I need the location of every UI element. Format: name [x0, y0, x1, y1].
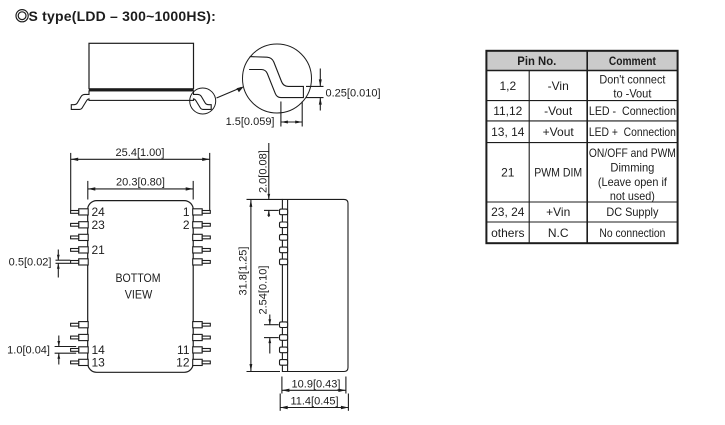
- svg-text:not used): not used): [610, 189, 655, 203]
- right pin 11: [193, 347, 211, 353]
- svg-text:25.4[1.00]: 25.4[1.00]: [116, 147, 165, 159]
- side pin row 20: [280, 259, 288, 265]
- svg-text:VIEW: VIEW: [125, 287, 153, 301]
- left pin 15: [71, 334, 89, 340]
- svg-text:LED - Connection: LED - Connection: [589, 104, 676, 118]
- side pin row 22: [280, 235, 288, 241]
- svg-text:11,12: 11,12: [493, 104, 522, 118]
- left gull-wing lead: [71, 94, 89, 109]
- right pin 9: [193, 322, 211, 328]
- svg-text:LED + Connection: LED + Connection: [589, 125, 676, 139]
- svg-text:BOTTOM: BOTTOM: [116, 271, 161, 285]
- right pin 1: [193, 209, 211, 215]
- side pin row 14: [280, 347, 288, 353]
- side view (right) body: [282, 199, 348, 371]
- svg-text:0.5[0.02]: 0.5[0.02]: [9, 256, 52, 268]
- svg-text:1.0[0.04]: 1.0[0.04]: [7, 344, 50, 356]
- dimension 0.25[0.010]: [306, 69, 381, 111]
- left pin 14: [71, 347, 89, 353]
- dimension 31.8[1.25]: [238, 199, 283, 371]
- pin labels left: [92, 205, 106, 370]
- table row 1,2 -Vin: [499, 72, 666, 100]
- table header background: [486, 51, 677, 71]
- side view base strip: [89, 91, 194, 101]
- side pin row 15: [280, 335, 288, 341]
- svg-text:ON/OFF and PWM: ON/OFF and PWM: [589, 146, 676, 160]
- table column line 2: [586, 51, 588, 243]
- svg-text:Comment: Comment: [609, 54, 656, 68]
- svg-text:No connection: No connection: [599, 226, 665, 240]
- svg-text:10.9[0.43]: 10.9[0.43]: [292, 379, 341, 391]
- svg-text:Dimming: Dimming: [610, 161, 654, 175]
- pin table: [486, 51, 677, 243]
- svg-text:24: 24: [92, 205, 106, 219]
- svg-text:+Vout: +Vout: [543, 125, 575, 139]
- side pin row 13: [280, 360, 288, 366]
- table outer border: [486, 51, 677, 243]
- svg-text:11.4[0.45]: 11.4[0.45]: [290, 396, 338, 408]
- svg-text:-Vout: -Vout: [544, 104, 573, 118]
- dimension 1.0[0.04]: [7, 336, 76, 365]
- left pin 20: [71, 259, 89, 265]
- svg-text:12: 12: [176, 356, 190, 370]
- table row 13,14 +Vout: [491, 125, 676, 139]
- dimension 20.3[0.80]: [88, 177, 193, 200]
- dimension 1.5[0.059]: [226, 102, 303, 129]
- dimension 25.4[1.00]: [71, 147, 210, 210]
- svg-text:31.8[1.25]: 31.8[1.25]: [238, 247, 250, 296]
- dimension 11.4[0.45]: [280, 394, 348, 411]
- svg-text:2.54[0.10]: 2.54[0.10]: [257, 266, 269, 315]
- svg-text:N.C: N.C: [548, 226, 569, 240]
- svg-text:2.0[0.08]: 2.0[0.08]: [257, 150, 269, 193]
- left pin 21: [71, 247, 89, 253]
- svg-text:13: 13: [92, 356, 106, 370]
- detail callout small circle: [190, 88, 216, 114]
- svg-text:Don't connect: Don't connect: [599, 72, 666, 86]
- svg-text:1: 1: [183, 205, 190, 219]
- side pin row 16: [280, 322, 288, 328]
- table row others N.C: [491, 226, 665, 240]
- pin labels right: [176, 205, 190, 370]
- svg-text:(Leave open if: (Leave open if: [598, 175, 668, 189]
- svg-text:PWM DIM: PWM DIM: [534, 166, 582, 180]
- svg-text:others: others: [491, 226, 524, 240]
- side pin row 23: [280, 222, 288, 228]
- svg-text:to -Vout: to -Vout: [613, 86, 652, 100]
- dimension 2.54[0.10]: [257, 266, 278, 354]
- right pin 4: [193, 247, 211, 253]
- svg-text:1,2: 1,2: [499, 79, 516, 93]
- right pin 10: [193, 334, 211, 340]
- left pin 13: [71, 359, 89, 365]
- dimension 10.9[0.43]: [282, 377, 346, 394]
- dimension 0.5[0.02]: [9, 250, 71, 278]
- side view left face inner line: [287, 199, 289, 371]
- table header text: [517, 54, 656, 68]
- table row 21 PWM DIM: [501, 146, 676, 203]
- table column line 1: [528, 71, 530, 244]
- svg-text:+Vin: +Vin: [546, 205, 570, 219]
- magnified gull-wing lead: [249, 57, 303, 98]
- svg-text:20.3[0.80]: 20.3[0.80]: [116, 177, 165, 189]
- svg-text:23: 23: [92, 218, 106, 232]
- right pin 5: [193, 259, 211, 265]
- right pin 3: [193, 234, 211, 240]
- dimension 2.0[0.08]: [257, 143, 278, 217]
- side pin row 21: [280, 247, 288, 253]
- bottom view body: [88, 201, 194, 373]
- svg-text:S type(LDD – 300~1000HS):: S type(LDD – 300~1000HS):: [29, 8, 216, 24]
- table row 23,24 +Vin: [491, 205, 658, 219]
- svg-text:2: 2: [183, 218, 190, 232]
- left pin 16: [71, 322, 89, 328]
- left pin 24: [71, 209, 89, 215]
- leader arrow to detail circle: [217, 86, 244, 98]
- title bullet double circle: [16, 10, 28, 22]
- BOTTOM VIEW label: [116, 271, 161, 301]
- left pin 23: [71, 222, 89, 228]
- right gull-wing lead: [193, 94, 211, 109]
- side view body (top): [89, 43, 194, 89]
- right pin 12: [193, 359, 211, 365]
- table row lines: [486, 70, 677, 72]
- svg-text:0.25[0.010]: 0.25[0.010]: [326, 87, 381, 99]
- svg-text:DC Supply: DC Supply: [606, 205, 658, 219]
- svg-text:-Vin: -Vin: [548, 79, 569, 93]
- svg-text:21: 21: [92, 243, 106, 257]
- table row 11,12 -Vout: [493, 104, 676, 118]
- svg-text:23, 24: 23, 24: [491, 205, 525, 219]
- svg-text:21: 21: [501, 166, 515, 180]
- detail view circle: [243, 44, 312, 113]
- left pin 22: [71, 234, 89, 240]
- side view base plate thick line: [89, 88, 194, 90]
- svg-text:13, 14: 13, 14: [491, 125, 525, 139]
- svg-text:Pin No.: Pin No.: [517, 54, 556, 68]
- right pin 2: [193, 222, 211, 228]
- svg-text:1.5[0.059]: 1.5[0.059]: [226, 116, 275, 128]
- side pin row 24: [280, 209, 288, 215]
